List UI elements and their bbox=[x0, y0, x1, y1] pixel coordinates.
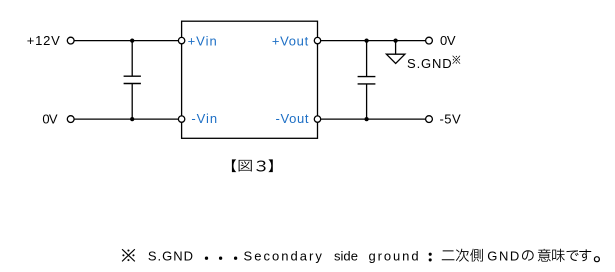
svg-text:S.GND: S.GND bbox=[407, 56, 452, 71]
DC-DC converter module U1 bbox=[182, 21, 318, 138]
capacitor C2 (output side) bbox=[358, 77, 376, 84]
footnote middle dots bbox=[205, 257, 237, 260]
svg-text:0V: 0V bbox=[440, 33, 456, 48]
svg-text:+Vin: +Vin bbox=[188, 33, 217, 48]
pin -Vin bbox=[178, 116, 184, 122]
wire -Vout pin to -5V terminal bbox=[321, 118, 426, 120]
svg-text:+Vout: +Vout bbox=[272, 33, 309, 48]
node: C1 top junction bbox=[130, 38, 134, 42]
svg-text:Secondary: Secondary bbox=[244, 249, 323, 264]
svg-text:side: side bbox=[334, 249, 358, 264]
svg-text:GND: GND bbox=[487, 249, 519, 264]
pin -Vout bbox=[314, 116, 320, 122]
svg-text:-Vout: -Vout bbox=[276, 111, 309, 126]
wire +Vout pin to 0V(right) terminal bbox=[321, 40, 426, 42]
terminal 0V (left) bbox=[67, 116, 74, 123]
pin +Vout bbox=[314, 37, 320, 43]
wire C1 upper lead bbox=[131, 41, 133, 77]
node: C2 top junction bbox=[364, 38, 368, 42]
footnote reference mark ※ bbox=[122, 249, 135, 261]
svg-text:+12V: +12V bbox=[27, 33, 60, 48]
capacitor C1 (input side) bbox=[124, 76, 141, 83]
terminal 0V (right) bbox=[426, 37, 433, 44]
node: ground junction bbox=[393, 38, 397, 42]
svg-text:-Vin: -Vin bbox=[191, 111, 217, 126]
ground S.GND symbol (open triangle) bbox=[386, 54, 405, 63]
wire +12V terminal to +Vin pin bbox=[74, 40, 178, 42]
wire ground stub bbox=[395, 41, 397, 55]
svg-text:S.GND: S.GND bbox=[148, 249, 193, 264]
label reference mark (superscript) bbox=[453, 56, 461, 64]
wire C2 lower lead bbox=[366, 84, 368, 119]
node: C1 bottom junction bbox=[130, 117, 134, 121]
wire C1 lower lead bbox=[131, 84, 133, 120]
pin +Vin bbox=[178, 37, 184, 43]
terminal -5V bbox=[426, 116, 433, 123]
svg-text:0V: 0V bbox=[42, 111, 57, 126]
caption 【図3】 bbox=[232, 159, 273, 172]
node: C2 bottom junction bbox=[364, 117, 368, 121]
footnote fullwidth colon bbox=[429, 253, 432, 262]
terminal +12V bbox=[67, 37, 74, 44]
footnote kanji 二次側 bbox=[442, 249, 483, 262]
svg-text:-5V: -5V bbox=[439, 111, 461, 126]
footnote kanji の意味です。 bbox=[522, 249, 600, 262]
wire C2 upper lead bbox=[366, 41, 368, 77]
wire 0V(left) terminal to -Vin pin bbox=[74, 118, 178, 120]
